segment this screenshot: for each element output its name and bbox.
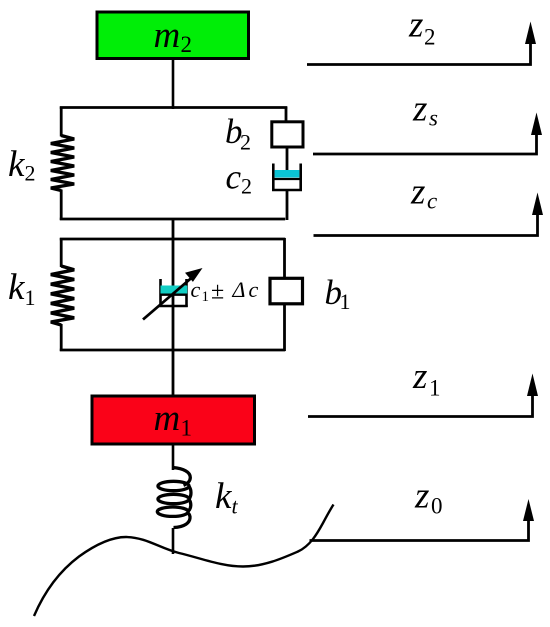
upper frame right wire top	[285, 107, 288, 124]
label c1 pm delta c	[191, 277, 259, 305]
lower frame right wire bottom	[283, 304, 286, 351]
upper frame left wire top	[60, 107, 63, 137]
label k2	[8, 144, 36, 186]
z1 measure line	[308, 374, 538, 417]
svg-text:c: c	[191, 277, 201, 302]
wire c2 to bottom	[286, 190, 289, 220]
svg-text:z: z	[414, 476, 429, 517]
svg-text:1: 1	[202, 289, 210, 305]
mass m2	[97, 12, 249, 59]
svg-text:s: s	[429, 106, 438, 131]
svg-text:2: 2	[424, 25, 436, 50]
svg-text:2: 2	[240, 130, 251, 155]
svg-text:1: 1	[25, 285, 36, 310]
label b2	[225, 112, 251, 155]
zc measure line	[314, 193, 544, 236]
wire kt to road	[172, 528, 175, 554]
wire between frames	[172, 219, 175, 240]
svg-text:k: k	[8, 144, 25, 185]
svg-text:z: z	[412, 89, 427, 130]
spring k1	[51, 266, 74, 325]
variable damper c1	[159, 279, 187, 307]
z2 measure line	[307, 22, 536, 65]
wire center through lower frame	[172, 239, 175, 395]
svg-text:m: m	[154, 398, 181, 439]
svg-text:1: 1	[181, 416, 193, 441]
wire b2 to c2	[286, 147, 289, 172]
svg-text:m: m	[154, 15, 181, 56]
svg-text:k: k	[8, 267, 25, 308]
svg-text:1: 1	[429, 376, 441, 401]
label zs	[412, 89, 438, 131]
svg-text:1: 1	[340, 289, 351, 314]
label c2	[226, 158, 253, 199]
svg-text:t: t	[232, 494, 239, 519]
svg-text:z: z	[412, 356, 427, 397]
label z2	[408, 5, 436, 50]
lower frame right wire top	[283, 238, 286, 279]
wire m1 to kt	[172, 446, 175, 471]
svg-text:2: 2	[25, 161, 36, 186]
spring k2	[51, 136, 74, 191]
z0 measure line	[310, 499, 535, 541]
lower frame top wire	[60, 238, 285, 241]
road wave	[34, 505, 334, 617]
svg-text:Δ: Δ	[232, 277, 246, 302]
svg-text:c: c	[427, 189, 437, 214]
svg-text:k: k	[215, 476, 232, 517]
svg-text:z: z	[410, 172, 425, 213]
damper b2 box	[272, 122, 303, 147]
svg-text:c: c	[249, 277, 259, 302]
mass m1	[92, 396, 255, 444]
tyre spring kt	[157, 468, 191, 528]
zs measure line	[313, 113, 542, 155]
label kt	[215, 476, 239, 519]
svg-text:2: 2	[181, 32, 193, 57]
damper b1 box	[270, 278, 303, 304]
upper frame bottom wire	[60, 218, 285, 221]
label z0	[414, 476, 443, 519]
label k1	[8, 267, 36, 310]
svg-text:c: c	[226, 158, 242, 197]
lower frame bottom wire	[60, 349, 285, 352]
upper frame left wire bottom	[60, 190, 63, 221]
wire m2 to upper frame	[172, 60, 175, 110]
svg-text:±: ±	[211, 279, 224, 305]
label b1	[325, 273, 351, 314]
upper frame top wire	[60, 106, 287, 109]
svg-text:z: z	[408, 5, 423, 46]
label zc	[410, 172, 437, 214]
svg-text:0: 0	[431, 494, 443, 519]
svg-text:2: 2	[241, 174, 252, 199]
variable damper arrow	[143, 268, 203, 320]
lower frame left wire bottom	[60, 324, 63, 351]
label z1	[412, 356, 441, 401]
damper c2	[272, 164, 302, 192]
lower frame left wire top	[60, 238, 63, 267]
